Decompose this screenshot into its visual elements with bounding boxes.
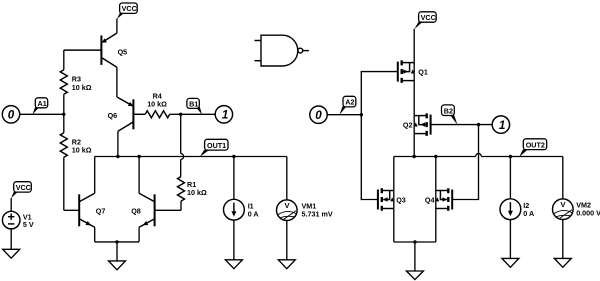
svg-text:0: 0	[8, 109, 15, 122]
svg-text:B1: B1	[189, 99, 198, 108]
transistor Q6 (PNP, mirrored)	[108, 97, 146, 131]
wire VCC to V1	[10, 198, 12, 211]
svg-text:Q1: Q1	[418, 68, 428, 77]
voltmeter VM1	[277, 157, 333, 221]
ground (Q7/Q8)	[109, 261, 126, 270]
node VCC (left top) label	[117, 3, 137, 19]
wire V1 to ground	[10, 229, 12, 249]
svg-text:0.000 V: 0.000 V	[576, 208, 600, 217]
node B2 label	[442, 105, 458, 125]
ground (I1)	[225, 260, 242, 269]
svg-text:OUT1: OUT1	[207, 141, 226, 150]
wire Q6 collector down to out rail	[117, 131, 119, 156]
node VCC (left bottom) label	[11, 182, 31, 199]
wire Q8 collector up to out rail	[138, 157, 140, 194]
node B1 label	[187, 98, 202, 114]
mosfet Q3 (NMOS)	[378, 188, 406, 211]
ground (I2)	[502, 258, 519, 267]
svg-text:VCC: VCC	[421, 13, 436, 22]
input state A2 (circle 0)	[310, 106, 327, 123]
voltage source V1	[2, 211, 33, 229]
node emitter junction	[115, 240, 118, 243]
svg-text:V: V	[285, 201, 290, 210]
wire I1 to ground	[233, 220, 235, 260]
wire A2 down to Q3 gate	[361, 115, 378, 200]
wire Q3 drain/source line	[393, 157, 395, 243]
ground (Q3/Q4)	[406, 271, 423, 280]
mosfet Q4 (NMOS, mirrored)	[425, 188, 452, 211]
mosfet Q2 (PMOS, mirrored)	[403, 113, 431, 136]
wire B1 down with hop over out rail	[181, 114, 184, 176]
transistor Q7 (NPN)	[79, 193, 105, 227]
svg-text:B2: B2	[444, 106, 453, 115]
svg-text:5 V: 5 V	[23, 220, 34, 229]
wire A2 to junction	[327, 114, 361, 116]
node junction I1-rail	[232, 155, 235, 158]
node OUT1 label	[200, 139, 228, 156]
wire Q8 emitter down	[138, 227, 140, 242]
svg-text:0 A: 0 A	[248, 209, 259, 218]
wire Q7 collector up to out rail	[94, 157, 96, 194]
node A2 label	[339, 96, 355, 115]
node bottom junction	[413, 240, 416, 243]
resistor R2	[60, 114, 91, 210]
node junction Q8-rail	[137, 155, 140, 158]
svg-text:OUT2: OUT2	[526, 140, 545, 149]
node OUT2 label	[519, 139, 546, 157]
svg-text:Q4: Q4	[425, 196, 435, 205]
wire VM1 to ground	[286, 220, 288, 260]
wire R1 bottom to Q8 base	[155, 209, 181, 211]
svg-text:VCC: VCC	[16, 183, 31, 192]
node junction Q6-rail	[116, 155, 119, 158]
wire B2 down to Q4 gate	[452, 125, 478, 200]
node A1 junction	[62, 113, 65, 116]
svg-text:0: 0	[315, 109, 322, 122]
transistor Q8 (NPN, mirrored)	[131, 193, 154, 227]
voltmeter VM2	[553, 157, 600, 220]
node junction Q4-rail	[434, 155, 437, 158]
wire bottom rail	[394, 241, 436, 243]
svg-text:Q8: Q8	[131, 206, 141, 215]
svg-text:A1: A1	[38, 99, 47, 108]
transistor Q5 (PNP)	[64, 33, 127, 67]
svg-text:Q5: Q5	[118, 48, 128, 57]
svg-text:10 kΩ: 10 kΩ	[72, 146, 92, 155]
wire Q4 drain/source line	[435, 157, 437, 243]
svg-text:Q7: Q7	[96, 206, 106, 215]
mosfet Q1 (PMOS)	[398, 60, 428, 83]
svg-text:A2: A2	[345, 98, 354, 107]
wire VCC down / main drain line	[413, 29, 415, 157]
wire to ground	[116, 242, 118, 261]
svg-text:V: V	[561, 200, 566, 209]
wire VM2 to ground	[562, 219, 564, 258]
ground (VM1)	[278, 260, 295, 269]
gate U1 (NAND)	[255, 35, 309, 66]
current source I1	[224, 157, 259, 221]
node A2 junction	[360, 113, 363, 116]
resistor R1	[178, 177, 207, 211]
input state B (circle 1)	[215, 106, 232, 123]
svg-text:VCC: VCC	[122, 4, 137, 13]
svg-text:10 kΩ: 10 kΩ	[187, 188, 207, 197]
resistor R3	[60, 50, 91, 114]
node junction Q2-rail	[413, 155, 416, 158]
wire emitter rail	[95, 241, 139, 243]
input state B2 (circle 1)	[492, 116, 509, 133]
wire input to column	[20, 113, 64, 115]
ground (V1)	[3, 249, 20, 258]
wire out rail OUT1	[95, 156, 287, 158]
wire I2 to ground	[509, 220, 511, 259]
wire Q2 gate to B2	[431, 124, 493, 126]
svg-text:Q2: Q2	[403, 121, 413, 130]
svg-text:Q6: Q6	[108, 111, 118, 120]
ground (VM2)	[554, 258, 571, 267]
node B2 junction	[477, 123, 480, 126]
wire VCC to Q5 emitter corner	[116, 19, 118, 34]
svg-text:1: 1	[222, 109, 228, 122]
wire B1 to state circle	[181, 113, 216, 115]
svg-text:10 kΩ: 10 kΩ	[147, 100, 167, 109]
wire Q7 emitter down	[94, 227, 96, 242]
svg-text:5.731 mV: 5.731 mV	[302, 209, 333, 218]
svg-text:10 kΩ: 10 kΩ	[72, 83, 92, 92]
svg-text:0 A: 0 A	[523, 209, 534, 218]
wire Q5 collector down to Q6 emitter	[116, 67, 118, 97]
resistor R4	[145, 91, 181, 118]
svg-text:1: 1	[499, 119, 505, 132]
wire column to Q7 base	[64, 209, 79, 211]
node B1 junction	[179, 113, 182, 116]
input state A (circle 0)	[2, 106, 19, 123]
svg-text:Q3: Q3	[396, 196, 406, 205]
node junction I2-rail	[509, 155, 512, 158]
wire out rail OUT2 (with hop over B2 line)	[394, 154, 563, 157]
current source I2	[500, 157, 534, 220]
node A1 label	[32, 98, 47, 115]
wire to ground	[414, 242, 416, 271]
wire A2 up to Q1 gate	[361, 72, 398, 115]
node VCC (right) label	[414, 12, 436, 29]
